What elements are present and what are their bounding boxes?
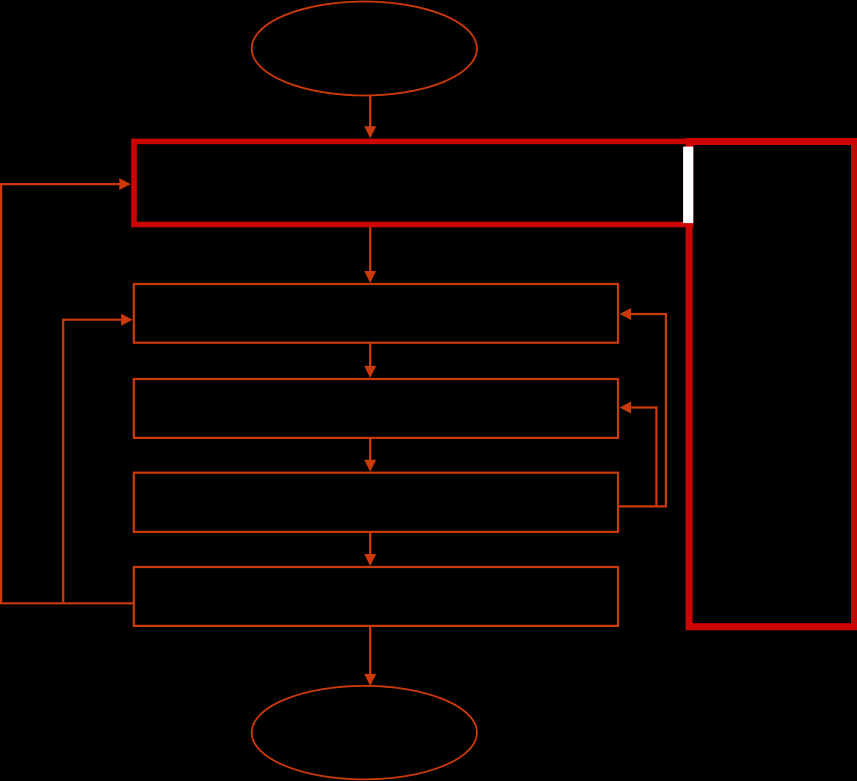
tall rectangle P2 (thick red, right) <box>689 142 854 627</box>
terminal ellipse E1 (start) <box>252 2 477 96</box>
process bar P1 (thick red) <box>134 141 691 224</box>
arrow A4 (B2 to B3) <box>364 438 376 472</box>
wire: right feedback loop R1 (B3 to B1) <box>618 308 666 506</box>
arrow A2 (P1 to box B1) <box>364 227 376 283</box>
wire: left feedback loop L1 (B4 to P1) <box>1 178 134 603</box>
arrow A5 (B3 to B4) <box>364 532 376 566</box>
wire: left feedback loop L2 (B4 to B1) <box>63 314 132 604</box>
terminal ellipse E2 (end) <box>252 686 477 780</box>
arrow A6 (B4 to terminal E2) <box>364 626 376 686</box>
box B4 <box>134 567 618 626</box>
arrow A1 (E1 to bar P1) <box>364 96 376 139</box>
box B2 <box>134 379 618 438</box>
highlight bar (white cursor over P1 right edge) <box>683 147 693 224</box>
box B3 <box>134 473 618 532</box>
box B1 <box>134 284 618 343</box>
wire: right feedback loop R2 (B3 to B2) <box>620 402 657 506</box>
arrow A3 (B1 to B2) <box>364 343 376 378</box>
